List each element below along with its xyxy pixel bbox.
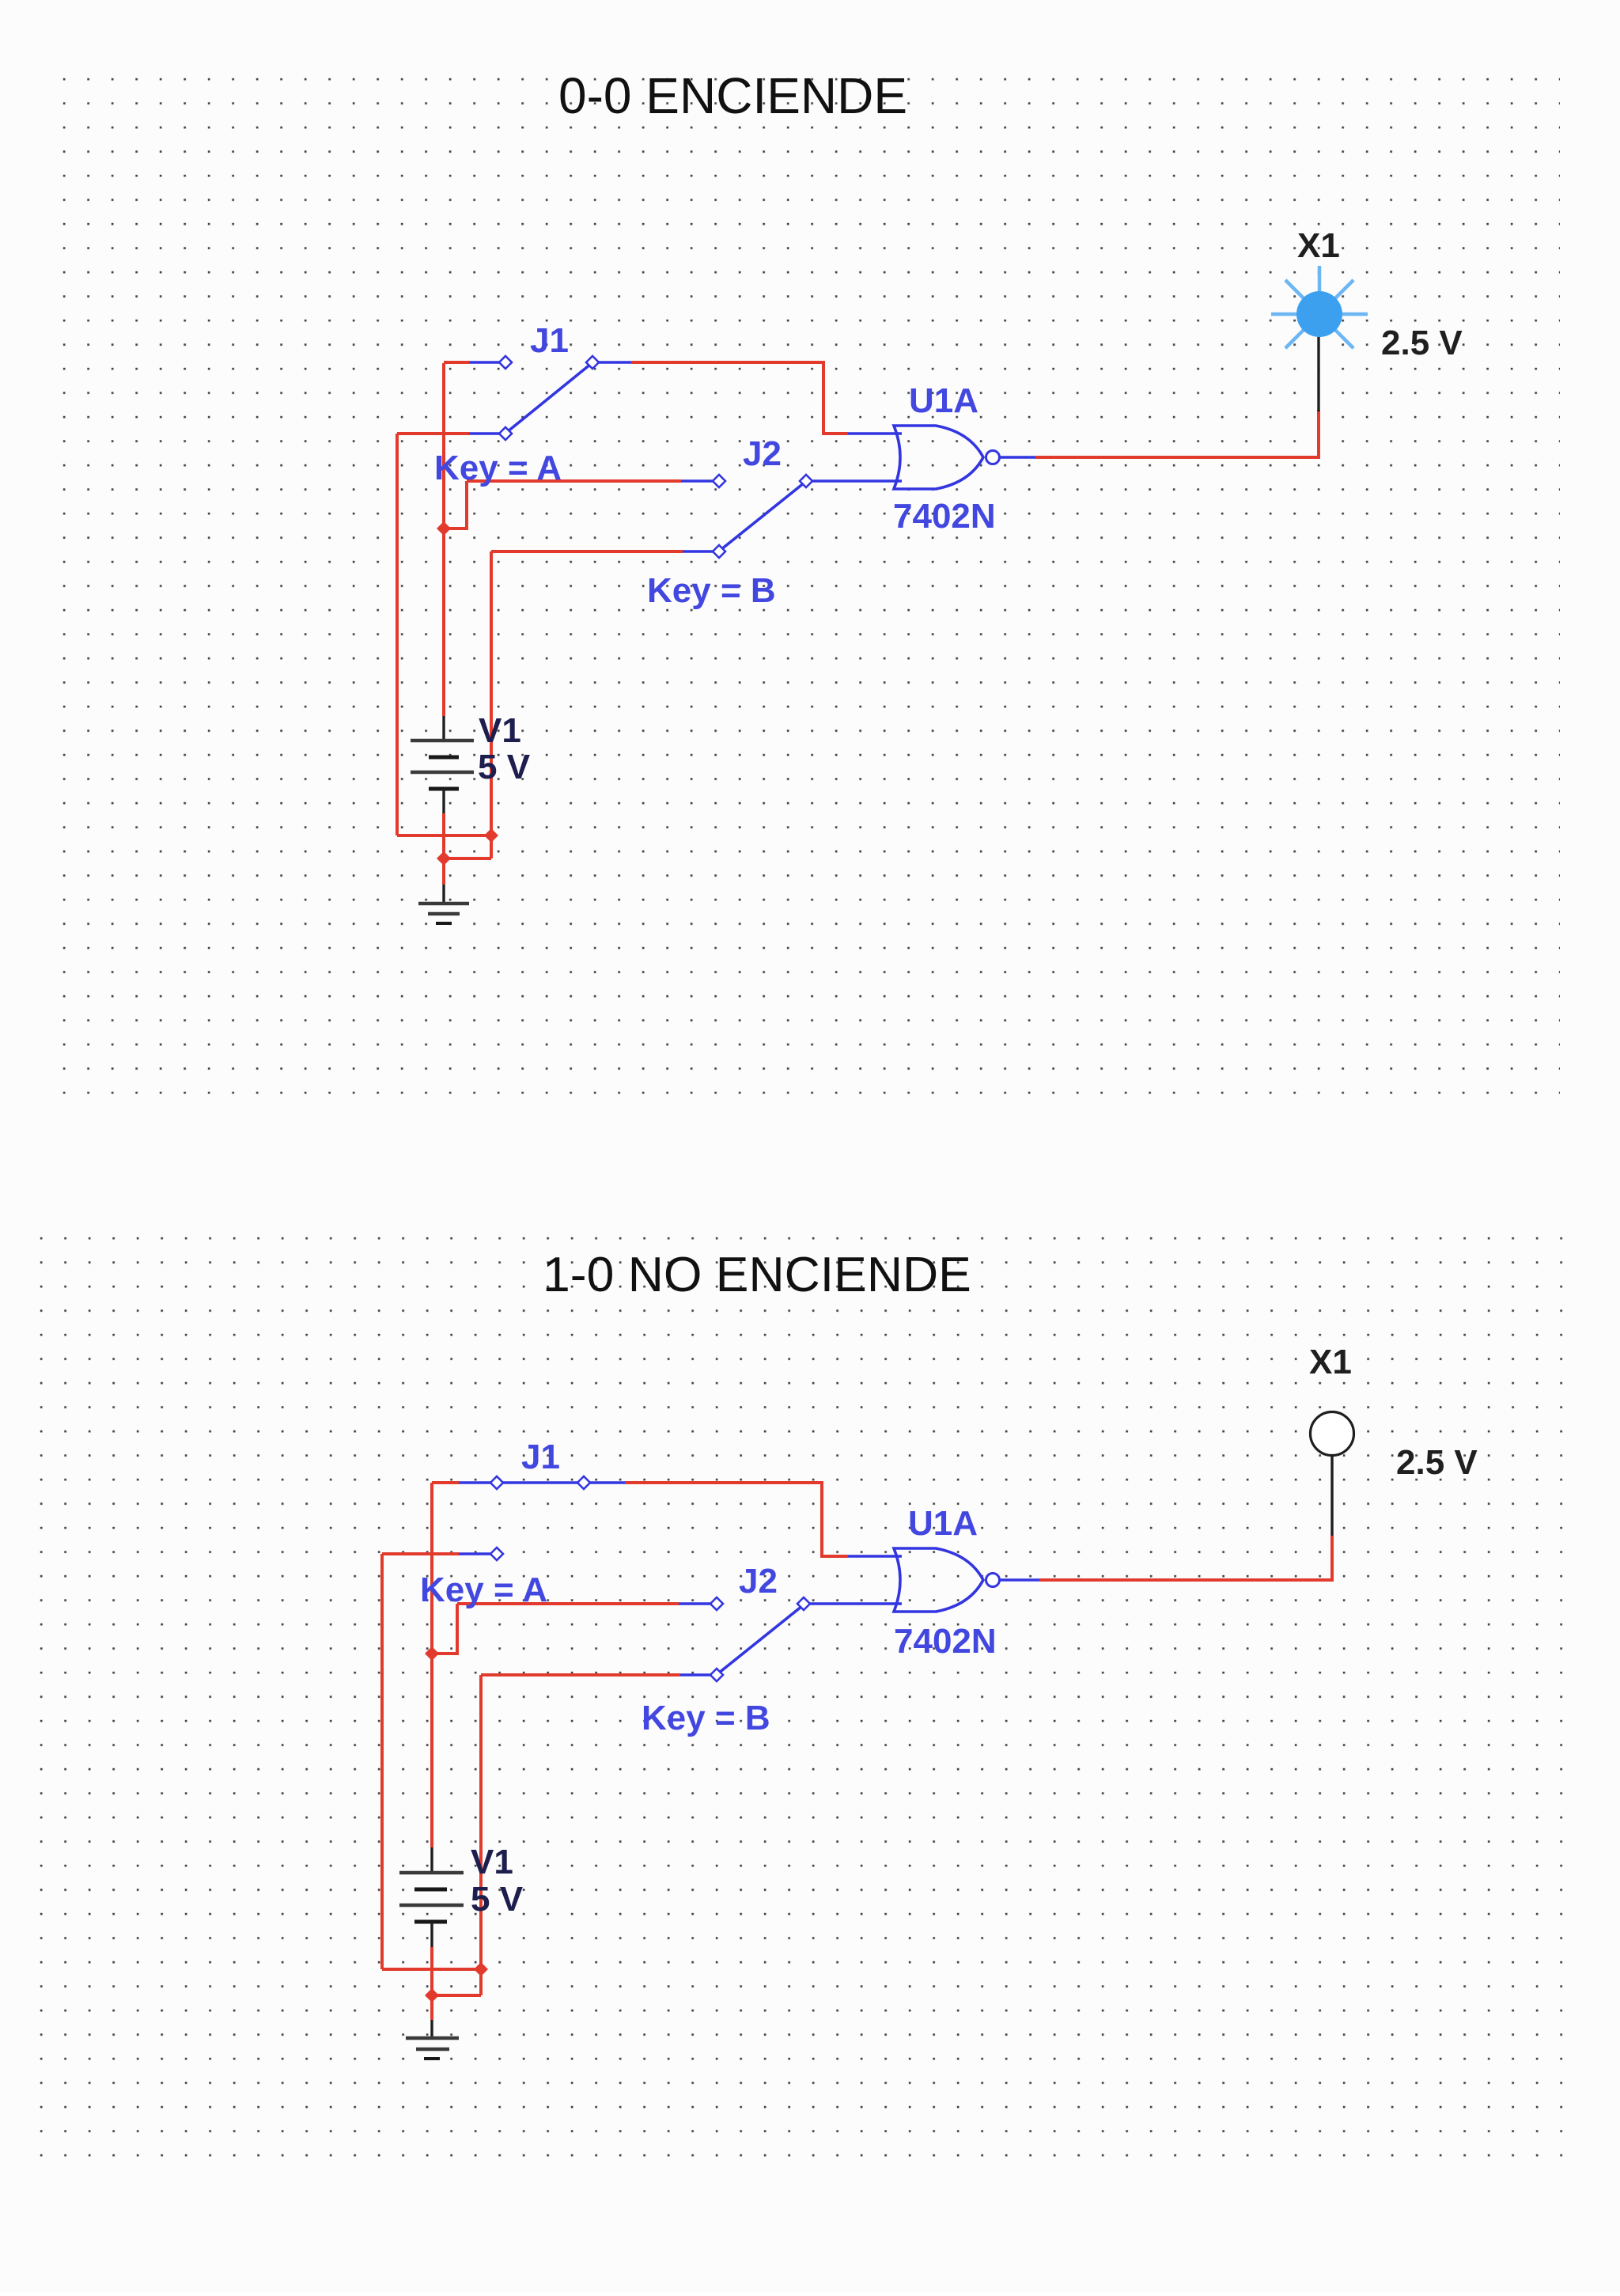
svg-text:U1A: U1A <box>908 1504 978 1543</box>
battery V1 plate + 2 (long) <box>411 771 474 775</box>
c2 wire U1A output lead <box>1000 1578 1039 1582</box>
svg-text:J1: J1 <box>530 321 569 360</box>
svg-text:7402N: 7402N <box>893 497 996 536</box>
c2 ground symbol <box>430 2020 433 2038</box>
c2 nor-gate U1A <box>894 1548 983 1612</box>
svg-text:U1A: U1A <box>909 381 978 420</box>
svg-text:Key = A: Key = A <box>434 449 562 487</box>
c2 wire battery negative to ground <box>430 1947 433 2020</box>
c2 wire V1+ corner to J1 pin1 stub <box>432 1481 459 1484</box>
wire J1 common to U1A input 1 <box>631 362 848 434</box>
switch J1 common terminal <box>586 356 599 369</box>
lamp X1 body (lit) <box>1296 291 1342 337</box>
c2 wire Key=B net to battery negative <box>432 1994 481 1997</box>
c2 switch J1 pin2 terminal <box>490 1548 503 1560</box>
node A branch from V1+ junction <box>444 481 467 529</box>
c2 wire V1+ up to J1 pin1 (vertical) <box>430 1483 433 1847</box>
svg-text:2.5 V: 2.5 V <box>1381 324 1463 362</box>
svg-text:2.5 V: 2.5 V <box>1396 1443 1478 1482</box>
c2 switch J2 pin3 lead <box>680 1673 710 1677</box>
switch J1 pin2 lead <box>469 432 500 435</box>
ground symbol <box>442 885 445 904</box>
c2 wire ground net to J1 pin2 (horizontal) <box>382 1552 459 1555</box>
wire Key=A net to J2 pin1 <box>467 479 681 483</box>
c2 battery V1 plate - (short) <box>414 1888 447 1892</box>
wire U1A input 1 lead <box>848 432 902 435</box>
wire Key=B net to J2 pin3 <box>491 550 683 553</box>
c2 switch J1 pin2 lead <box>459 1552 491 1555</box>
battery V1 plate + (long) <box>411 739 474 743</box>
c2 switch J2 pin3 terminal <box>710 1669 723 1681</box>
c2 switch J1 common terminal <box>577 1476 590 1489</box>
svg-text:Key = A: Key = A <box>420 1570 547 1609</box>
junction on V1+ vertical <box>437 521 451 536</box>
c2 switch J1 pin1 lead <box>459 1481 491 1484</box>
c2 wire ground net bottom horizontal <box>382 1968 481 1971</box>
wire ground net left vertical <box>396 434 399 835</box>
switch J2 pin1 terminal <box>713 475 725 487</box>
c2 wire U1A output to lamp X1 <box>1039 1536 1332 1580</box>
lamp X1 lead <box>1317 337 1319 411</box>
wire V1+ up to J1 pin1 (vertical) <box>442 363 445 716</box>
switch J2 common terminal <box>800 475 812 487</box>
c2 junction ground net at Key=B vertical <box>474 1962 488 1976</box>
svg-text:0-0 ENCIENDE: 0-0 ENCIENDE <box>558 67 907 124</box>
junction ground net at Key=B vertical <box>484 828 498 843</box>
switch J2 lever (pin3 to common) <box>721 483 804 550</box>
switch J2 common lead <box>812 479 902 483</box>
wire U1A output lead <box>1000 456 1035 459</box>
switch J2 pin3 lead <box>683 550 713 553</box>
c2 lamp X1 lead <box>1330 1456 1333 1536</box>
nor-gate U1A <box>894 426 983 489</box>
svg-text:5 V: 5 V <box>478 748 531 786</box>
switch J1 pin1 terminal <box>499 356 512 369</box>
c2 junction on V1+ vertical <box>425 1646 439 1661</box>
svg-text:V1: V1 <box>471 1843 513 1881</box>
svg-text:J2: J2 <box>743 434 782 473</box>
lamp X1 rays (lit) <box>1342 313 1368 316</box>
c2 battery V1 positive stub <box>430 1847 433 1873</box>
c2 battery V1 plate + (long) <box>399 1871 464 1875</box>
svg-text:V1: V1 <box>479 711 521 750</box>
c2 switch J2 pin1 lead <box>679 1602 710 1605</box>
c2 switch J2 common terminal <box>797 1597 810 1610</box>
c2 wire Key=B net to J2 pin3 <box>481 1673 680 1677</box>
c2 wire Key=A net to J2 pin1 <box>457 1602 679 1605</box>
wire Key=B net vertical <box>490 551 493 858</box>
c2 switch J1 pin1 terminal <box>490 1476 503 1489</box>
c2 battery V1 negative stub <box>430 1922 433 1947</box>
svg-text:J2: J2 <box>739 1562 778 1601</box>
svg-text:1-0 NO ENCIENDE: 1-0 NO ENCIENDE <box>543 1247 971 1302</box>
junction at battery negative <box>437 851 451 866</box>
c2 battery V1 plate + 2 (long) <box>399 1904 464 1908</box>
switch J1 common lead <box>598 361 631 364</box>
c2 junction at battery negative <box>425 1988 439 2002</box>
c2 switch J1 lever (pin1 to common) <box>503 1481 577 1484</box>
c2 switch J2 pin1 terminal <box>710 1597 723 1610</box>
svg-text:X1: X1 <box>1309 1343 1352 1381</box>
c2 wire ground net left vertical <box>380 1554 384 1969</box>
svg-text:X1: X1 <box>1297 226 1340 265</box>
battery V1 positive stub <box>442 716 445 741</box>
c2 switch J1 common lead <box>589 1481 625 1484</box>
c2 wire U1A input 1 lead <box>848 1555 902 1558</box>
wire U1A output to lamp X1 <box>1035 410 1319 457</box>
wire Key=B net to battery negative <box>444 857 491 860</box>
switch J1 pin1 lead <box>469 361 500 364</box>
wire ground net bottom horizontal <box>397 834 491 837</box>
svg-text:Key = B: Key = B <box>642 1699 770 1737</box>
svg-text:Key = B: Key = B <box>647 571 776 610</box>
c2 node A branch from V1+ junction <box>432 1604 457 1654</box>
switch J1 lever (pin2 to common) <box>507 364 591 432</box>
c2 lamp X1 body (off) <box>1311 1412 1354 1456</box>
svg-text:5 V: 5 V <box>471 1880 524 1919</box>
c2 wire J1 common to U1A input 1 <box>625 1483 848 1556</box>
battery V1 plate - 2 (short) <box>429 787 459 791</box>
c2 switch J2 common lead <box>810 1602 902 1605</box>
switch J2 pin3 terminal <box>713 545 725 558</box>
switch J1 pin2 terminal <box>499 427 512 440</box>
wire ground net to J1 pin2 (horizontal) <box>397 432 469 435</box>
battery V1 plate - (short) <box>429 756 459 760</box>
svg-text:7402N: 7402N <box>894 1622 997 1661</box>
switch J2 pin1 lead <box>681 479 713 483</box>
battery V1 negative stub <box>442 789 445 813</box>
wire V1+ corner to J1 pin1 stub <box>444 361 469 364</box>
c2 wire Key=B net vertical <box>479 1675 483 1995</box>
wire battery negative to ground <box>442 813 445 885</box>
c2 battery V1 plate - 2 (short) <box>414 1920 447 1924</box>
c2 switch J2 lever (pin3 to common) <box>718 1606 802 1673</box>
svg-text:J1: J1 <box>521 1438 560 1476</box>
